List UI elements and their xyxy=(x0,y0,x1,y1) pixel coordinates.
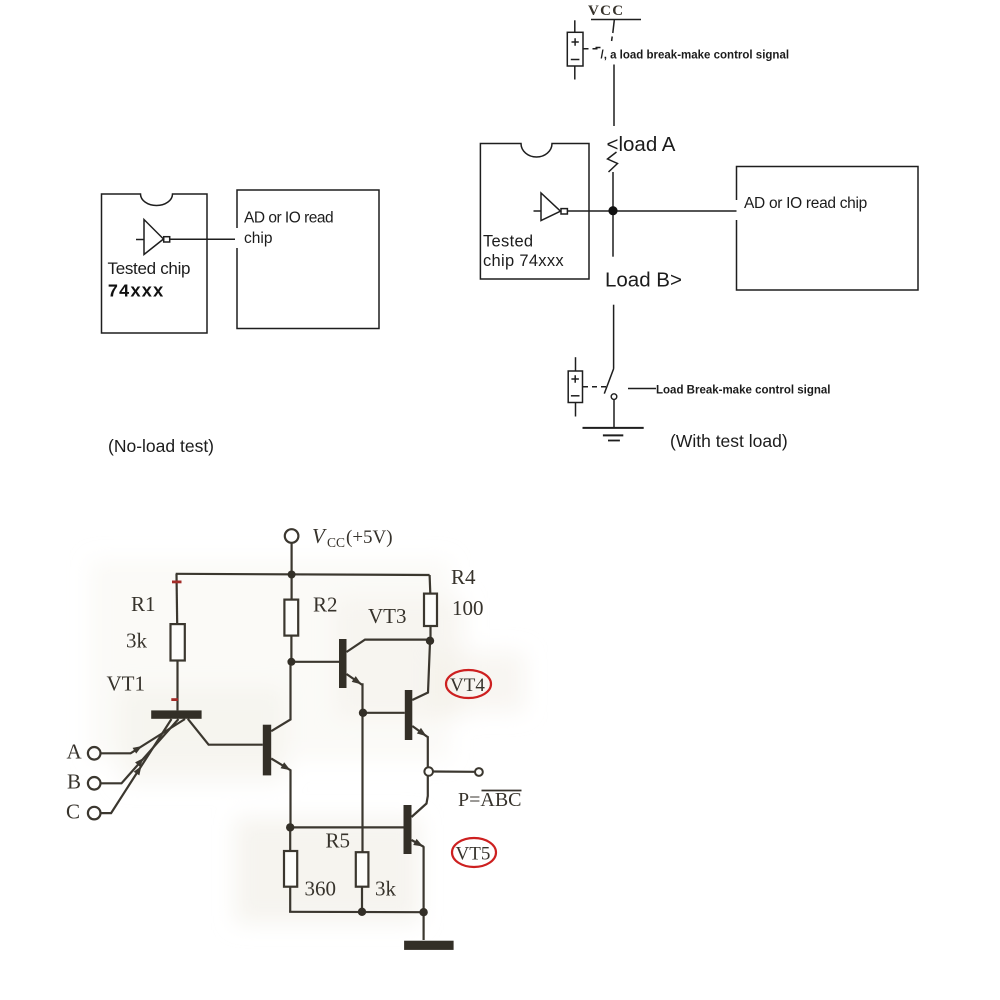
leader line to control text xyxy=(628,388,656,390)
resistor R5 3k body xyxy=(356,852,369,887)
junction dot bus/VCC xyxy=(288,571,296,579)
VT4 collector wire xyxy=(412,642,430,700)
svg-text:AD or IO read chip: AD or IO read chip xyxy=(744,195,867,212)
buffer gate U-left triangle xyxy=(144,220,164,255)
wire VT5-base junction down to 360 xyxy=(289,827,291,851)
VT5 base wire xyxy=(291,826,404,828)
gate output square pin (right) xyxy=(561,209,567,214)
svg-text:VT4: VT4 xyxy=(450,675,485,696)
svg-text:B: B xyxy=(67,770,81,794)
battery B1 body xyxy=(567,32,583,66)
battery B1 minus sign xyxy=(571,59,580,61)
svg-text:AD or IO read: AD or IO read xyxy=(244,210,333,227)
input B arrowhead xyxy=(135,756,146,767)
svg-text:3k: 3k xyxy=(126,629,148,653)
svg-text:74xxx: 74xxx xyxy=(108,283,165,303)
output wire between circles xyxy=(433,770,475,772)
resistor R2 body xyxy=(284,600,298,636)
svg-text:R1: R1 xyxy=(131,592,156,616)
VT3 emitter wire down to 3k xyxy=(347,674,363,852)
gate output square pin xyxy=(164,237,170,242)
VCC rail line xyxy=(591,19,641,21)
VT5 collector wire xyxy=(412,776,428,817)
wire Load B to switch S2 xyxy=(613,305,615,369)
AD or IO read chip box (left diagram) xyxy=(237,190,379,329)
input A arrowhead xyxy=(133,743,144,754)
wire 360 to bottom rail xyxy=(289,887,291,912)
tested chip box (right, with notch) xyxy=(480,144,589,280)
svg-text:(With test load): (With test load) xyxy=(670,431,788,451)
wire gate to AD box xyxy=(170,238,235,240)
red tick mark on R1 bottom wire xyxy=(171,698,178,701)
svg-text:R4: R4 xyxy=(451,565,476,589)
svg-text:3k: 3k xyxy=(375,877,397,901)
svg-text:/, a load break-make control s: /, a load break-make control signal xyxy=(601,50,790,62)
VT2 collector wire xyxy=(271,662,290,731)
ground bar (bottom) xyxy=(404,941,454,950)
junction dot R2/VT3 base xyxy=(287,658,295,666)
load A zigzag xyxy=(608,152,618,172)
svg-text:100: 100 xyxy=(452,596,484,620)
battery B2 plus sign xyxy=(571,375,579,382)
VT5 bar xyxy=(404,805,412,854)
VT5 emitter wire xyxy=(412,840,424,912)
wire terminal to bus xyxy=(291,543,293,575)
junction dot VT2 emitter/VT5 base xyxy=(286,823,294,831)
emitter arrow VT5 xyxy=(413,839,425,850)
input B terminal circle xyxy=(88,777,101,790)
battery B1 bottom lead xyxy=(574,66,576,80)
battery B2 minus sign xyxy=(571,395,580,397)
VT3 bar xyxy=(339,639,347,688)
overline of ABC xyxy=(482,790,522,792)
red ellipse VT5 xyxy=(452,838,496,867)
wire bus to R2 xyxy=(291,575,293,600)
VT3 collector wire xyxy=(347,640,430,652)
switch S2 blade xyxy=(604,369,613,394)
wire bus corner down to R1 xyxy=(175,574,178,624)
scanned paper tint patches xyxy=(90,560,525,923)
wire zigzag to node xyxy=(612,172,614,207)
VT4 emitter wire xyxy=(412,726,428,767)
battery B2 body xyxy=(568,371,582,403)
buffer gate right triangle xyxy=(541,193,561,221)
dashed control link S1 xyxy=(584,48,600,50)
input A wire xyxy=(101,719,185,753)
dashed control link S2 xyxy=(583,386,608,388)
gate input pin xyxy=(136,239,144,241)
svg-text:R2: R2 xyxy=(313,593,338,617)
battery B2 bottom lead xyxy=(575,403,577,417)
wire switch contact to ground xyxy=(613,399,615,428)
junction dot VT3 emitter/VT4 base xyxy=(359,709,367,717)
VCC terminal circle xyxy=(285,529,299,543)
wire 3k to bottom rail xyxy=(361,887,363,912)
svg-text:chip 74xxx: chip 74xxx xyxy=(483,252,564,270)
VT1 collector wire to VT2 base xyxy=(188,719,263,745)
svg-text:VT1: VT1 xyxy=(107,672,146,696)
wire rail to ground xyxy=(423,912,425,940)
wire node down to Load B text xyxy=(612,215,614,257)
svg-text:R5: R5 xyxy=(326,829,351,853)
node dot (output net) xyxy=(608,206,617,215)
svg-text:Load B>: Load B> xyxy=(605,269,682,292)
gate input pin (right) xyxy=(534,210,542,212)
svg-text:(No-load test): (No-load test) xyxy=(108,436,214,456)
output end circle xyxy=(475,768,483,776)
resistor R1 body xyxy=(171,624,185,660)
input C arrowhead xyxy=(134,764,145,775)
input C terminal circle xyxy=(88,807,101,820)
output node circle xyxy=(424,767,433,776)
ground G2 lines xyxy=(583,427,644,429)
switch S2 contact circle xyxy=(611,394,617,400)
red tick mark on R1 top wire xyxy=(172,581,182,584)
wire R2 to junction xyxy=(290,636,292,662)
svg-text:P=ABC: P=ABC xyxy=(458,789,522,811)
bottom rail wire xyxy=(289,911,424,914)
emitter arrow VT4 xyxy=(417,728,429,739)
VT4 bar xyxy=(405,690,413,740)
svg-text:(+5V): (+5V) xyxy=(346,527,393,548)
wire junction to VT3 base xyxy=(291,661,339,663)
svg-text:VCC: VCC xyxy=(588,3,624,19)
input B wire xyxy=(101,719,179,783)
svg-text:C: C xyxy=(66,800,80,824)
overbar tick before slash xyxy=(596,47,601,49)
svg-text:V: V xyxy=(312,524,327,548)
svg-text:CC: CC xyxy=(327,535,345,550)
svg-text:Tested: Tested xyxy=(483,233,533,251)
battery B1 plus sign xyxy=(572,38,579,45)
resistor R4 body xyxy=(424,594,437,626)
emitter arrow VT2 xyxy=(281,762,293,773)
battery B2 top lead xyxy=(575,357,577,371)
svg-text:Load Break-make control signal: Load Break-make control signal xyxy=(656,385,830,397)
battery B1 top lead xyxy=(574,20,576,32)
red ellipse VT4 xyxy=(446,670,491,698)
svg-text:chip: chip xyxy=(244,230,272,247)
input A terminal circle xyxy=(88,747,101,760)
junction dot VT5 emitter/ground xyxy=(419,908,427,916)
svg-text:<load A: <load A xyxy=(607,133,676,156)
switch S1 blade xyxy=(613,20,615,33)
wire R4 to junction xyxy=(429,626,431,641)
svg-text:Tested chip: Tested chip xyxy=(108,259,191,278)
wire R1 to VT1 base xyxy=(176,661,178,711)
tested chip box U-left (with notch) xyxy=(102,194,208,333)
VT4 base wire xyxy=(363,712,405,714)
wire VCC switch to load A xyxy=(613,65,615,127)
junction dot 3k/bottom rail xyxy=(358,908,366,916)
resistor R3 360 body xyxy=(284,851,297,887)
VT1 multi-emitter base bar xyxy=(151,710,201,718)
VT2 bar xyxy=(263,725,271,776)
VCC bus wire xyxy=(176,574,430,575)
svg-text:A: A xyxy=(67,740,83,764)
svg-text:VT5: VT5 xyxy=(456,844,491,865)
svg-text:360: 360 xyxy=(305,877,337,901)
junction dot R4/VT3 collector xyxy=(426,637,434,645)
wire bus corner to R4 xyxy=(429,575,432,594)
svg-text:VT3: VT3 xyxy=(368,604,407,628)
input C wire xyxy=(101,719,172,813)
VT2 emitter wire xyxy=(271,759,290,828)
AD or IO read chip box (right diagram) xyxy=(737,167,919,291)
emitter arrow VT3 xyxy=(352,676,364,687)
wire gate output to AD box (through node) xyxy=(567,210,736,212)
